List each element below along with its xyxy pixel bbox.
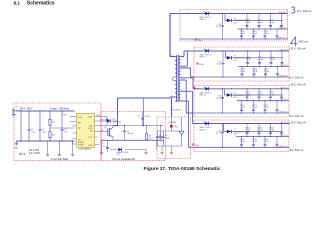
soft start text <box>51 157 68 161</box>
capacitor CA0 <box>216 14 224 40</box>
svg-text:0.1 µF: 0.1 µF <box>252 107 258 109</box>
node Plus A <box>195 38 203 42</box>
LDO U5 <box>224 124 284 136</box>
svg-text:Q1: Q1 <box>104 127 107 129</box>
svg-text:+15 V, 300 mA: +15 V, 300 mA <box>289 122 306 125</box>
feedback caps <box>156 131 170 146</box>
diode D1 <box>200 12 213 22</box>
ground mid left <box>100 140 103 154</box>
snubber bus <box>101 125 164 126</box>
svg-text:10 µF: 10 µF <box>240 141 246 143</box>
input labels <box>16 107 70 111</box>
svg-text:C4: C4 <box>137 115 139 117</box>
svg-text:22 µF: 22 µF <box>246 59 252 61</box>
svg-text:GND_A_2: GND_A_2 <box>279 75 289 78</box>
feedback wires <box>158 117 182 146</box>
ground snubber right <box>156 140 158 149</box>
svg-text:0.1 µF: 0.1 µF <box>252 33 258 35</box>
ground input <box>14 141 19 149</box>
box A net labels <box>278 11 288 40</box>
svg-text:PGND: PGND <box>78 145 84 147</box>
wire EN to IC <box>50 127 75 129</box>
svg-text:3: 3 <box>171 95 172 97</box>
box A top rail <box>170 13 288 15</box>
svg-text:PGD: PGD <box>88 128 93 130</box>
svg-text:22 µF: 22 µF <box>245 130 251 132</box>
box D net labels <box>279 122 289 148</box>
output connector J3 <box>291 37 298 47</box>
svg-text:-8 V, 100 mA: -8 V, 100 mA <box>289 77 304 80</box>
wire switch node drain <box>113 98 170 126</box>
svg-text:+15 V, 100 mA: +15 V, 100 mA <box>289 47 306 50</box>
winding pin numbers <box>171 55 182 98</box>
soft start caps and grounds under IC <box>46 141 74 156</box>
box C bottom rail <box>194 112 289 114</box>
diode D3 <box>200 87 213 97</box>
svg-text:Fuse + 250 kHz: Fuse + 250 kHz <box>51 107 70 111</box>
node Neg D <box>192 143 200 147</box>
box A lower caps <box>240 29 279 39</box>
output label 3 <box>289 77 306 87</box>
svg-text:8.1: 8.1 <box>14 0 21 5</box>
svg-text:4: 4 <box>182 66 183 68</box>
IC net labels <box>63 115 106 145</box>
shunt reference U6 TLV431 <box>179 132 184 136</box>
svg-text:(SE) 1 2: (SE) 1 2 <box>200 95 207 97</box>
diode D2 <box>200 49 213 59</box>
svg-text:(SE) 1 2: (SE) 1 2 <box>200 129 207 131</box>
svg-text:1: 1 <box>171 55 172 57</box>
capacitor C1 <box>28 111 36 141</box>
LDO U4 <box>225 89 284 99</box>
capacitor C17 <box>61 111 69 141</box>
feedback grounds <box>160 146 173 154</box>
output box B dashed <box>194 47 289 81</box>
capacitor C9 <box>103 140 109 152</box>
node Plus C <box>193 87 201 91</box>
box A mid rail <box>238 28 288 30</box>
svg-text:49.9: 49.9 <box>149 138 153 140</box>
svg-text:GND: GND <box>14 147 19 149</box>
box D bottom rail <box>194 146 289 148</box>
bottom rail middle <box>101 139 164 141</box>
svg-text:X2: X2 <box>16 107 18 109</box>
capacitor C snub 1000pF <box>123 126 134 141</box>
box A bottom rail <box>180 38 288 40</box>
svg-text:14 V OFF: 14 V OFF <box>29 151 41 155</box>
svg-text:0.1 µF: 0.1 µF <box>252 71 258 73</box>
svg-text:8: 8 <box>182 90 183 92</box>
svg-text:750343373: 750343373 <box>171 109 182 111</box>
resistor R snub 49.9 <box>146 126 153 141</box>
svg-text:Schematics: Schematics <box>27 0 55 6</box>
LDO U3 <box>226 51 284 62</box>
svg-text:2.2 µF: 2.2 µF <box>269 22 275 24</box>
output label 2 <box>289 41 308 51</box>
output label 1 <box>297 10 312 13</box>
box D top rail <box>197 123 289 125</box>
svg-text:VCC: VCC <box>88 137 93 139</box>
svg-text:28 V - 36 V: 28 V - 36 V <box>20 107 33 111</box>
svg-text:0.1 µF: 0.1 µF <box>257 130 263 132</box>
svg-text:D3: D3 <box>203 87 205 89</box>
svg-text:1N4148W: 1N4148W <box>113 121 122 123</box>
box B upper caps <box>246 51 284 67</box>
svg-text:VCC: VCC <box>101 142 106 144</box>
op-amp U1 controller IC LM5160 <box>77 113 95 150</box>
box D mid rail <box>236 136 289 138</box>
svg-text:2.2 µF: 2.2 µF <box>269 130 275 132</box>
LDO U2 <box>225 14 283 25</box>
wire input bottom rail <box>17 140 75 142</box>
svg-text:1000 pF: 1000 pF <box>126 133 134 135</box>
wire column 1 <box>20 111 22 141</box>
resistor R1 divider top <box>49 111 56 131</box>
capacitor C snub right <box>159 126 162 141</box>
svg-text:+15V_A_2: +15V_A_2 <box>279 64 289 67</box>
svg-text:D4: D4 <box>203 122 205 124</box>
svg-text:GND_B_1: GND_B_1 <box>279 146 289 148</box>
capacitor C2 <box>39 111 47 141</box>
output box D dashed <box>194 120 289 152</box>
svg-text:Figure 27. TIDA-00199 Schemati: Figure 27. TIDA-00199 Schematic <box>144 166 221 172</box>
svg-text:2.2 µF: 2.2 µF <box>264 71 270 73</box>
svg-text:10 µF: 10 µF <box>240 33 246 35</box>
feedback section dashed box <box>157 117 191 159</box>
svg-text:10 µF: 10 µF <box>240 107 246 109</box>
svg-text:2.2 µF: 2.2 µF <box>263 107 269 109</box>
output label 5 <box>289 149 304 152</box>
svg-text:VIN: VIN <box>78 117 82 119</box>
box A upper caps <box>245 14 283 30</box>
svg-text:Do not populate D9: Do not populate D9 <box>113 157 136 161</box>
bootstrap capacitor C6 <box>99 117 108 125</box>
diode D4 <box>200 122 213 132</box>
box B bottom rail <box>194 76 289 78</box>
svg-text:2.2 µF: 2.2 µF <box>263 33 269 35</box>
capacitor CC0 <box>216 89 224 113</box>
resistor R2 divider bottom <box>49 131 56 141</box>
input connector J1 <box>13 109 18 117</box>
svg-text:VIN: VIN <box>63 115 67 117</box>
heading 8.1 Schematics <box>14 0 55 6</box>
svg-text:(SE) 1 2: (SE) 1 2 <box>200 57 207 59</box>
wire primary link <box>173 77 175 81</box>
svg-text:TLV431B: TLV431B <box>168 122 177 124</box>
test point TP red <box>19 153 25 155</box>
output box C dashed <box>194 86 289 118</box>
node Plus B <box>196 62 204 66</box>
wire primary feed <box>170 14 175 57</box>
UVLO text <box>29 148 41 155</box>
svg-text:0.1 µF: 0.1 µF <box>252 141 258 143</box>
box C upper caps <box>245 89 283 101</box>
diode D9 <box>110 148 146 157</box>
output connector J2 <box>291 7 295 13</box>
box C mid rail <box>237 100 289 102</box>
diode D8 <box>99 119 121 123</box>
snubber section dashed box <box>101 112 166 161</box>
svg-text:-8 V, 100 mA: -8 V, 100 mA <box>289 115 304 118</box>
capacitor CD0 <box>216 124 224 148</box>
box B net labels <box>279 48 289 77</box>
svg-text:6: 6 <box>182 78 183 80</box>
svg-text:GND_A_1: GND_A_1 <box>279 111 289 114</box>
svg-text:2 ms Soft Start: 2 ms Soft Start <box>51 157 68 161</box>
svg-text:-8 V, 300 mA: -8 V, 300 mA <box>289 149 304 152</box>
svg-text:470 pF: 470 pF <box>144 116 151 118</box>
capacitor C snub 470pF <box>137 112 151 126</box>
svg-text:15 µF: 15 µF <box>216 26 222 28</box>
input section dashed box <box>14 103 101 160</box>
wire primary bottom <box>170 97 175 117</box>
transistor Q1 <box>101 126 113 141</box>
box D upper caps <box>245 124 283 137</box>
svg-text:15 µF: 15 µF <box>216 98 222 100</box>
svg-text:10 µF: 10 µF <box>240 71 246 73</box>
svg-text:C9: C9 <box>103 146 105 148</box>
IC left pin stubs <box>70 117 77 145</box>
svg-text:15 µF: 15 µF <box>216 133 222 135</box>
svg-text:+400 mA: +400 mA <box>298 41 308 44</box>
transformer T1 <box>171 55 182 111</box>
ground mid right <box>144 150 147 155</box>
svg-text:GND_A_1: GND_A_1 <box>278 37 288 40</box>
box C net labels <box>279 86 289 113</box>
svg-text:0.1 µF: 0.1 µF <box>257 22 263 24</box>
svg-text:RON: RON <box>88 145 93 147</box>
svg-text:2.2 µF: 2.2 µF <box>269 59 275 61</box>
box C top rail <box>197 88 289 90</box>
diode designators <box>203 12 205 124</box>
svg-text:22 µF: 22 µF <box>245 94 251 96</box>
wire input top rail <box>18 110 75 112</box>
svg-text:AGND: AGND <box>78 141 84 144</box>
svg-text:+15V_A_1: +15V_A_1 <box>278 27 288 30</box>
svg-text:(SE) 1 2: (SE) 1 2 <box>200 19 207 21</box>
svg-text:D2: D2 <box>203 49 205 51</box>
feedback TLV431 <box>168 122 179 129</box>
box D lower caps <box>240 137 279 148</box>
IC right pin stubs <box>95 117 102 145</box>
svg-text:2: 2 <box>182 55 183 57</box>
box B lower caps <box>240 67 279 78</box>
output label 4 <box>289 115 306 125</box>
do not populate text <box>113 157 136 161</box>
svg-text:0.1 µF: 0.1 µF <box>258 59 264 61</box>
svg-text:+15V_A_2: +15V_A_2 <box>279 48 289 51</box>
svg-text:+15V_A_1: +15V_A_1 <box>278 11 288 14</box>
box B top rail <box>197 50 289 52</box>
svg-text:2.2 µF: 2.2 µF <box>269 94 275 96</box>
svg-text:0.1 µF: 0.1 µF <box>257 94 263 96</box>
wire clamp riser <box>143 98 145 126</box>
wire secondary risers <box>180 51 184 57</box>
svg-text:15 µF: 15 µF <box>217 64 223 66</box>
caption Figure 27 <box>144 166 221 172</box>
svg-text:2.2 µF: 2.2 µF <box>263 141 269 143</box>
svg-text:LM5160ADNT: LM5160ADNT <box>79 148 92 151</box>
svg-text:22 µF: 22 µF <box>245 22 251 24</box>
output box A dashed <box>180 10 288 42</box>
svg-text:15 V, 100 mA: 15 V, 100 mA <box>297 10 312 13</box>
svg-text:TP10: TP10 <box>174 127 179 129</box>
svg-text:+15 V, 100 mA: +15 V, 100 mA <box>289 83 306 86</box>
box C lower caps <box>240 101 279 113</box>
box B mid rail <box>238 66 289 68</box>
svg-text:D1: D1 <box>203 12 205 14</box>
capacitor CB0 <box>217 51 225 77</box>
